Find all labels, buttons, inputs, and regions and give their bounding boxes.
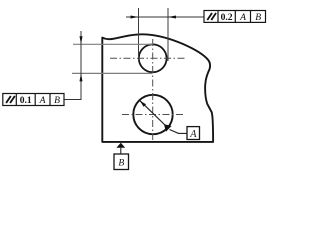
top dimension extension line left — [138, 8, 140, 61]
datum B leader — [120, 148, 122, 154]
lower hole horizontal centerline — [122, 114, 185, 116]
top dimension extension line right — [167, 8, 169, 61]
upper hole circle — [139, 44, 167, 72]
lower tangent extension line — [72, 72, 153, 74]
datum A leader to box — [170, 130, 188, 134]
datum A box — [187, 127, 200, 140]
top dimension arrow pointing left — [168, 16, 176, 19]
svg-text:A: A — [239, 12, 246, 23]
datum A diameter leader line — [140, 101, 166, 126]
left dimension arrow pointing up — [80, 73, 83, 81]
datum B box — [114, 154, 129, 170]
upper hole horizontal centerline — [110, 57, 185, 59]
svg-text:0.2: 0.2 — [221, 12, 233, 23]
svg-text:B: B — [255, 12, 261, 23]
feature control frame 0.2 A B box — [204, 11, 266, 23]
parallelism symbol top frame — [207, 13, 216, 20]
part outline — [102, 34, 213, 142]
svg-text:0.1: 0.1 — [20, 95, 32, 106]
feature control frame 0.1 A B box — [3, 94, 64, 106]
parallelism symbol left frame — [6, 96, 15, 103]
vertical centerline through both holes — [152, 39, 154, 140]
datum A diameter arrowhead — [140, 101, 146, 107]
left frame leader — [64, 99, 82, 101]
left dimension arrow pointing down — [80, 36, 83, 44]
top dimension line with leader to frame — [126, 16, 204, 18]
left dimension line — [80, 31, 82, 100]
svg-text:A: A — [39, 95, 46, 106]
upper tangent extension line — [73, 43, 153, 45]
lower hole circle — [133, 95, 172, 134]
svg-text:B: B — [118, 158, 124, 169]
datum A filled triangle — [164, 124, 172, 132]
svg-text:B: B — [54, 95, 60, 106]
datum B filled triangle — [116, 143, 125, 148]
svg-text:A: A — [189, 129, 197, 140]
top dimension arrow pointing right — [131, 16, 139, 19]
